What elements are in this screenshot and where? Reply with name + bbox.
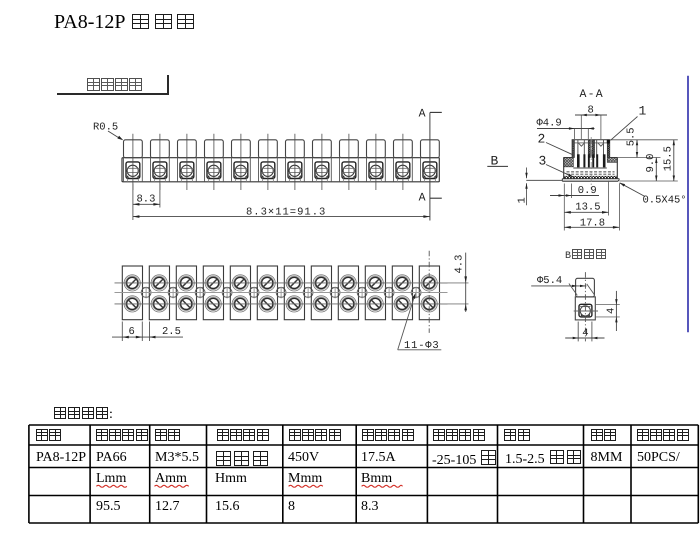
section line A-A vertical	[429, 112, 431, 220]
dimension 1 (flange thickness) line	[526, 168, 528, 179]
terminal unit 12 top view body rect	[419, 266, 439, 320]
terminal unit 3 front: screw recess square	[180, 162, 194, 179]
terminal unit 4 top view screw slot slash	[209, 300, 217, 308]
terminal unit 3 front: foot ticks	[180, 179, 182, 182]
view B: hole diagonals	[569, 284, 577, 296]
view B: upper box	[576, 278, 595, 297]
dimension 8.3x11=91.3 extension line left	[132, 208, 134, 221]
terminal unit 7 front: foot ticks	[288, 179, 290, 182]
terminal unit 3 top view screw inner circle	[181, 277, 192, 288]
hole 5 bridge lines	[251, 286, 258, 288]
terminal unit 8 front: foot ticks	[315, 179, 317, 182]
terminal unit 10 front: foot ticks	[369, 179, 371, 182]
terminal unit 7 top view screw slot slash	[290, 300, 298, 308]
terminal unit 6 top view screw inner circle	[262, 277, 273, 288]
terminal unit 4 top view body rect	[203, 266, 223, 320]
view B: screw recess square	[579, 304, 592, 317]
section: mounting flange	[562, 178, 619, 180]
dimension phi4.9 extension lines	[573, 129, 575, 140]
centerline unit 11	[402, 134, 404, 190]
label 11-phi3 leader	[398, 295, 415, 350]
terminal unit 5 front: slot shadows	[235, 175, 238, 178]
terminal unit 11 top view screw slot slash	[398, 300, 406, 308]
terminal unit 1 front: screw head circle	[127, 165, 138, 176]
svg-text:0.5X45°: 0.5X45°	[643, 194, 687, 206]
centerline unit 3	[186, 134, 188, 190]
terminal unit 11 front: screw head circle	[397, 165, 408, 176]
hole 3 bridge lines	[197, 286, 204, 288]
terminal unit 7 top view screw slot slash	[290, 279, 298, 287]
terminal unit 8 front: screw head circle	[316, 165, 327, 176]
section: center axis line	[590, 137, 592, 190]
svg-text:8: 8	[588, 104, 594, 116]
section: left shoulder (hatched)	[564, 158, 574, 167]
svg-text:A: A	[419, 192, 426, 205]
dimension 5.5 extension lines (right)	[610, 139, 678, 141]
document title PA8-12P spec	[54, 11, 196, 34]
terminal unit 12 top view screw inner circle	[424, 277, 435, 288]
dimension 4.3 line	[465, 253, 467, 312]
terminal unit 5 front: wire-entry tower	[232, 140, 251, 158]
section: body outline left/right	[563, 158, 565, 179]
view B: lower box	[575, 297, 595, 320]
terminal unit 6 front: wire-entry tower	[259, 140, 278, 158]
svg-text:11-Φ3: 11-Φ3	[404, 340, 440, 352]
terminal unit 4 top view screw outer circle	[205, 296, 221, 312]
terminal unit 11 front: screw recess square	[396, 162, 410, 179]
dimension 4.3 extension lines	[441, 282, 469, 284]
terminal unit 8 top view screw facet ring	[315, 276, 328, 289]
terminal unit 7 front: screw chord lines	[288, 167, 302, 169]
view B title	[565, 249, 607, 262]
terminal unit 10 top view screw inner circle	[370, 298, 381, 309]
pass-through hole 10 (11-phi3)	[384, 288, 394, 298]
terminal unit 11 top view screw inner circle	[397, 298, 408, 309]
view B: horizontal centerline	[574, 310, 598, 312]
terminal unit 4 top view screw facet ring	[207, 297, 220, 310]
terminal unit 2 front: screw head circle	[154, 165, 165, 176]
terminal unit 12 top view screw slot slash	[425, 300, 433, 308]
section: screw bore lines cavity 1	[577, 140, 579, 158]
terminal unit 10 front: screw head circle	[370, 165, 381, 176]
terminal unit 10 front: slot shadows	[370, 175, 373, 178]
svg-text:9.0: 9.0	[645, 154, 657, 173]
section: screw bore lines cavity 2	[596, 140, 598, 158]
terminal unit 3 top view screw facet ring	[180, 297, 193, 310]
terminal unit 12 front: foot ticks	[423, 179, 425, 182]
terminal unit 5 top view screw facet ring	[234, 276, 247, 289]
terminal unit 11 front: unit wall lines	[393, 158, 395, 182]
svg-text:8.3: 8.3	[137, 194, 156, 206]
terminal unit 3 front: screw head circle	[181, 165, 192, 176]
terminal unit 5 top view screw outer circle	[232, 275, 248, 291]
terminal unit 10 front: wire-entry tower	[367, 140, 386, 158]
terminal unit 6 top view screw facet ring	[261, 276, 274, 289]
pass-through hole 7 (11-phi3)	[303, 288, 313, 298]
svg-text:2.5: 2.5	[162, 326, 181, 338]
terminal unit 1 front: screw chord lines	[126, 167, 140, 169]
terminal unit 5 front: screw head circle	[235, 165, 246, 176]
terminal unit 10 front: unit wall lines	[366, 158, 368, 182]
terminal unit 2 front: screw recess square	[153, 162, 167, 179]
terminal unit 12 top view screw outer circle	[421, 275, 437, 291]
terminal unit 8 top view screw facet ring	[315, 297, 328, 310]
terminal unit 2 front: foot ticks	[153, 179, 155, 182]
svg-text:Φ5.4: Φ5.4	[537, 275, 562, 287]
terminal unit 8 top view screw inner circle	[316, 298, 327, 309]
hole 4 bridge lines	[224, 286, 231, 288]
section: right tower wall (dense hatch)	[607, 140, 610, 158]
dimension 6 line	[112, 336, 152, 338]
hole 11 bridge lines	[413, 286, 420, 288]
terminal unit 7 front: screw head circle	[289, 165, 300, 176]
svg-text:8.3×11=91.3: 8.3×11=91.3	[246, 207, 326, 219]
svg-text:A-A: A-A	[580, 88, 604, 101]
section: left tower wall (dense hatch)	[572, 140, 574, 158]
terminal unit 6 top view screw inner circle	[262, 298, 273, 309]
svg-text:17.8: 17.8	[580, 218, 605, 230]
terminal unit 11 top view body rect	[392, 266, 412, 320]
dimension 8 extension lines (section)	[580, 115, 582, 139]
terminal unit 1 top view screw outer circle	[124, 275, 140, 291]
dimension 8.3 extension lines	[132, 184, 134, 208]
terminal unit 12 front: screw head circle	[424, 165, 435, 176]
dimension 13.5 extension line right	[608, 181, 610, 216]
terminal unit 11 top view screw facet ring	[396, 276, 409, 289]
dimension 4 (bottom) extension lines	[577, 322, 579, 342]
dimension 8.3 line	[133, 203, 160, 205]
terminal unit 3 front: slot shadows	[181, 175, 184, 178]
svg-text:R0.5: R0.5	[93, 122, 118, 134]
terminal unit 3 top view screw inner circle	[181, 298, 192, 309]
dimension 4 (bottom) line	[565, 337, 604, 339]
svg-text:1: 1	[639, 104, 647, 119]
view label box underline	[57, 93, 168, 95]
terminal unit 9 front: wire-entry tower	[340, 140, 359, 158]
dimension 9.0 line	[655, 158, 657, 182]
terminal unit 10 front: screw chord lines	[369, 167, 383, 169]
terminal unit 4 front: wire-entry tower	[205, 140, 224, 158]
terminal unit 7 top view screw inner circle	[289, 277, 300, 288]
terminal unit 3 top view screw outer circle	[178, 275, 194, 291]
terminal unit 12 front: wire-entry tower	[421, 140, 440, 158]
svg-text:0.9: 0.9	[578, 185, 597, 197]
leader 0.5x45 chamfer note	[620, 183, 645, 197]
top view middle centerline	[115, 292, 448, 294]
dimension 4 (right) line	[615, 291, 617, 331]
terminal unit 8 front: wire-entry tower	[313, 140, 332, 158]
terminal unit 9 front: unit wall lines	[339, 158, 341, 182]
terminal unit 9 top view screw outer circle	[340, 275, 356, 291]
spell-check squiggle under Mmm	[289, 485, 323, 487]
terminal unit 10 front: screw recess square	[369, 162, 383, 179]
hole 1 bridge lines	[143, 286, 150, 288]
terminal unit 5 top view screw slot slash	[236, 300, 244, 308]
terminal unit 1 top view screw facet ring	[126, 276, 139, 289]
terminal unit 8 front: slot shadows	[316, 175, 319, 178]
table row 3: dimension letters	[96, 471, 126, 487]
terminal unit 10 top view screw facet ring	[369, 276, 382, 289]
terminal unit 4 front: screw head circle	[208, 165, 219, 176]
terminal unit 10 top view screw slot slash	[371, 279, 379, 287]
terminal unit 2 top view screw inner circle	[154, 298, 165, 309]
terminal unit 11 front: screw chord lines	[396, 167, 410, 169]
terminal unit 12 top view screw inner circle	[424, 298, 435, 309]
top view row1 centerline	[115, 282, 448, 284]
svg-text:5.5: 5.5	[626, 127, 638, 146]
terminal unit 11 top view screw outer circle	[394, 275, 410, 291]
pass-through hole 8 (11-phi3)	[330, 288, 340, 298]
terminal unit 5 top view screw outer circle	[232, 296, 248, 312]
terminal unit 1 front: slot shadows	[127, 175, 130, 178]
terminal unit 6 front: screw recess square	[261, 162, 275, 179]
terminal unit 10 top view screw outer circle	[367, 296, 383, 312]
terminal unit 1 top view screw slot slash	[128, 300, 136, 308]
terminal unit 2 top view screw inner circle	[154, 277, 165, 288]
section: screw head line + cone cavity 1	[574, 142, 588, 144]
terminal unit 7 top view screw outer circle	[286, 296, 302, 312]
terminal unit 9 front: foot ticks	[342, 179, 344, 182]
table row 2: values	[36, 450, 86, 466]
terminal unit 7 front: screw recess square	[288, 162, 302, 179]
terminal unit 9 front: screw head circle	[343, 165, 354, 176]
terminal unit 4 top view screw slot slash	[209, 279, 217, 287]
svg-text:6: 6	[129, 326, 135, 338]
view B: vertical centerline	[584, 272, 586, 341]
terminal unit 3 top view screw outer circle	[178, 296, 194, 312]
terminal unit 4 front: screw chord lines	[207, 167, 221, 169]
terminal unit 5 front: unit wall lines	[231, 158, 233, 182]
section: rail line extending left	[526, 179, 562, 181]
terminal unit 10 top view screw inner circle	[370, 277, 381, 288]
terminal unit 2 front: screw chord lines	[153, 167, 167, 169]
terminal unit 9 top view body rect	[338, 266, 358, 320]
svg-text:4: 4	[582, 327, 588, 339]
terminal unit 10 top view body rect	[365, 266, 385, 320]
svg-text:4.3: 4.3	[454, 255, 466, 274]
terminal unit 11 front: wire-entry tower	[394, 140, 413, 158]
svg-text:2: 2	[538, 131, 546, 146]
terminal unit 9 top view screw slot slash	[344, 300, 352, 308]
spell-check squiggle under Lmm	[96, 485, 126, 487]
terminal unit 3 front: wire-entry tower	[178, 140, 197, 158]
svg-text:4: 4	[606, 308, 618, 314]
svg-text:Φ4.9: Φ4.9	[537, 118, 562, 130]
terminal unit 12 front: screw chord lines	[423, 167, 437, 169]
terminal unit 9 top view screw inner circle	[343, 277, 354, 288]
svg-text:13.5: 13.5	[575, 202, 600, 214]
pass-through hole 11 (11-phi3)	[411, 288, 421, 298]
dimension 5.5 line	[636, 140, 638, 158]
terminal unit 10 top view screw facet ring	[369, 297, 382, 310]
centerline unit 8	[321, 134, 323, 190]
centerline unit 1	[132, 134, 134, 190]
terminal unit 1 top view screw outer circle	[124, 296, 140, 312]
terminal unit 3 front: screw chord lines	[180, 167, 194, 169]
terminal unit 2 top view body rect	[149, 266, 169, 320]
centerline unit 10	[375, 134, 377, 190]
terminal unit 5 top view screw inner circle	[235, 277, 246, 288]
centerline unit 7	[294, 134, 296, 190]
terminal unit 11 top view screw outer circle	[394, 296, 410, 312]
pass-through hole 5 (11-phi3)	[249, 288, 259, 298]
table row 4: dimension values	[96, 499, 121, 515]
terminal unit 11 top view screw facet ring	[396, 297, 409, 310]
view B: slot shadows	[581, 314, 583, 316]
svg-text:15.5: 15.5	[662, 146, 674, 171]
centerline unit 5	[240, 134, 242, 190]
centerline unit 4	[213, 134, 215, 190]
terminal unit 7 top view screw inner circle	[289, 298, 300, 309]
terminal unit 6 top view screw outer circle	[259, 296, 275, 312]
section: screw shaft black bars	[577, 154, 580, 167]
pass-through hole 2 (11-phi3)	[168, 288, 178, 298]
rotated view label box text	[86, 77, 143, 95]
terminal unit 11 top view screw inner circle	[397, 277, 408, 288]
terminal unit 1 top view screw inner circle	[127, 298, 138, 309]
spell-check squiggle under Bmm	[362, 485, 403, 487]
section: cavity2 left wall (dense hatch)	[592, 140, 595, 158]
terminal unit 2 top view screw slot slash	[155, 279, 163, 287]
terminal unit 4 top view screw inner circle	[208, 277, 219, 288]
hole 2 bridge lines	[170, 286, 177, 288]
dimension 8 line	[575, 114, 607, 116]
terminal unit 7 front: unit wall lines	[285, 158, 287, 182]
dimension 6 extension lines	[121, 322, 123, 342]
terminal unit 10 top view screw slot slash	[371, 300, 379, 308]
terminal unit 6 top view screw slot slash	[263, 279, 271, 287]
terminal unit 12 top view screw facet ring	[423, 297, 436, 310]
terminal unit 12 top view screw outer circle	[421, 296, 437, 312]
dimension 9.0 extension line	[619, 180, 677, 182]
dimension 4 (right) extension lines	[596, 304, 620, 306]
section: chamfer 0.5x45	[618, 179, 619, 181]
terminal unit 7 top view screw outer circle	[286, 275, 302, 291]
pass-through hole 4 (11-phi3)	[222, 288, 232, 298]
terminal unit 11 top view screw slot slash	[398, 279, 406, 287]
terminal unit 6 front: foot ticks	[261, 179, 263, 182]
terminal unit 2 front: slot shadows	[154, 175, 157, 178]
terminal unit 5 top view screw inner circle	[235, 298, 246, 309]
section: wire cavity dotted strip	[564, 176, 617, 179]
dimension 0.9 extension line	[570, 184, 572, 199]
view label box right bar	[167, 75, 169, 96]
section: screw head line + cone cavity 2	[595, 142, 608, 144]
pass-through hole 6 (11-phi3)	[276, 288, 286, 298]
terminal unit 2 front: unit wall lines	[150, 158, 152, 182]
terminal unit 2 top view screw facet ring	[153, 276, 166, 289]
svg-text:1: 1	[517, 197, 529, 203]
terminal unit 9 top view screw outer circle	[340, 296, 356, 312]
terminal unit 6 top view body rect	[257, 266, 277, 320]
blue CAD viewport border line (right)	[687, 76, 689, 333]
pass-through hole 3 (11-phi3)	[195, 288, 205, 298]
terminal unit 1 front: wire-entry tower	[124, 140, 143, 158]
hole 9 bridge lines	[359, 286, 366, 288]
terminal unit 9 top view screw slot slash	[344, 279, 352, 287]
terminal unit 7 top view screw facet ring	[288, 297, 301, 310]
centerline unit 2	[159, 134, 161, 190]
terminal unit 6 front: slot shadows	[262, 175, 265, 178]
label 11-phi3 underline	[398, 349, 442, 351]
dimension 17.8 extension lines	[563, 184, 565, 231]
terminal unit 8 front: screw chord lines	[315, 167, 329, 169]
terminal unit 12 front: screw recess square	[423, 162, 437, 179]
hole 7 bridge lines	[305, 286, 312, 288]
terminal unit 9 top view screw inner circle	[343, 298, 354, 309]
front view body outline	[122, 158, 439, 182]
terminal unit 7 top view body rect	[284, 266, 304, 320]
terminal unit 2 top view screw slot slash	[155, 300, 163, 308]
terminal unit 9 top view screw facet ring	[342, 297, 355, 310]
terminal unit 12 top view screw slot slash	[425, 279, 433, 287]
terminal unit 7 front: slot shadows	[289, 175, 292, 178]
terminal unit 3 top view screw slot slash	[182, 279, 190, 287]
terminal unit 8 top view screw outer circle	[313, 296, 329, 312]
terminal unit 5 top view screw slot slash	[236, 279, 244, 287]
top view row2 centerline	[115, 303, 448, 305]
terminal unit 3 top view screw slot slash	[182, 300, 190, 308]
hole 6 bridge lines	[278, 286, 285, 288]
view B: screw circle	[580, 306, 590, 316]
terminal unit 1 top view body rect	[122, 266, 142, 320]
terminal unit 6 front: unit wall lines	[258, 158, 260, 182]
table row 1: headers	[35, 427, 62, 445]
terminal unit 3 top view screw facet ring	[180, 276, 193, 289]
svg-text:A: A	[419, 108, 426, 121]
section: cavity1 right wall (dense hatch)	[588, 140, 590, 158]
centerline unit 9	[348, 134, 350, 190]
centerline unit 6	[267, 134, 269, 190]
terminal unit 6 front: screw chord lines	[261, 167, 275, 169]
terminal unit 2 front: wire-entry tower	[151, 140, 170, 158]
spell-check squiggle under Amm	[155, 485, 189, 487]
terminal unit 6 top view screw outer circle	[259, 275, 275, 291]
terminal unit 3 top view body rect	[176, 266, 196, 320]
terminal unit 6 top view screw slot slash	[263, 300, 271, 308]
section: tower top edge	[572, 139, 610, 141]
terminal unit 1 front: screw recess square	[126, 162, 140, 179]
dimension 17.8 line	[564, 226, 619, 228]
terminal unit 6 front: screw head circle	[262, 165, 273, 176]
terminal unit 1 top view screw slot slash	[128, 279, 136, 287]
terminal unit 1 front: unit wall lines	[123, 158, 125, 182]
section: right shoulder (hatched)	[607, 158, 617, 163]
top view last unit vertical centerline (dashed)	[428, 251, 430, 333]
terminal unit 2 top view screw outer circle	[151, 296, 167, 312]
dimension 15.5 line	[673, 140, 675, 181]
dimension 0.9 line	[550, 195, 599, 197]
parameter table grid	[28, 425, 30, 523]
terminal unit 4 top view screw inner circle	[208, 298, 219, 309]
terminal unit 5 front: foot ticks	[234, 179, 236, 182]
terminal unit 5 top view body rect	[230, 266, 250, 320]
terminal unit 9 top view screw facet ring	[342, 276, 355, 289]
dimension phi4.9 line	[537, 128, 595, 130]
dimension 2.5 extension line	[149, 322, 151, 342]
dimension 13.5 line	[564, 211, 608, 213]
dimension 8.3x11=91.3 line	[133, 216, 430, 218]
terminal unit 12 front: unit wall lines	[420, 158, 422, 182]
terminal unit 7 top view screw facet ring	[288, 276, 301, 289]
terminal unit 1 top view screw inner circle	[127, 277, 138, 288]
terminal unit 8 top view screw slot slash	[317, 300, 325, 308]
hole 10 bridge lines	[386, 286, 393, 288]
terminal unit 5 front: screw chord lines	[234, 167, 248, 169]
terminal unit 2 top view screw outer circle	[151, 275, 167, 291]
terminal unit 4 front: unit wall lines	[204, 158, 206, 182]
terminal unit 6 top view screw facet ring	[261, 297, 274, 310]
